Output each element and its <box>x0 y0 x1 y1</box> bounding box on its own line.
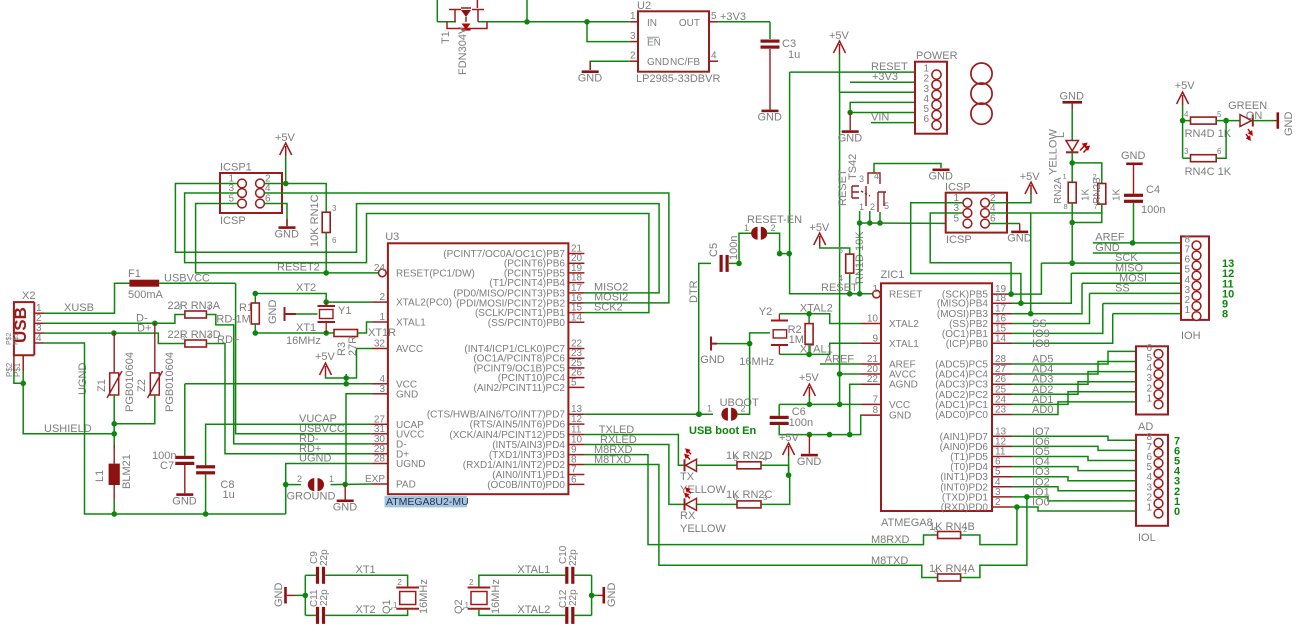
svg-text:GND: GND <box>700 354 725 366</box>
svg-text:XTAL1: XTAL1 <box>889 339 919 350</box>
C7 gnd lead <box>184 465 186 493</box>
U3 pin 10 (INT5/AIN3)PD4 <box>568 444 584 446</box>
varistor Z1 <box>113 333 115 373</box>
svg-text:AD0: AD0 <box>1032 404 1053 416</box>
junction dot <box>877 220 883 226</box>
resistor RN1D <box>846 254 854 273</box>
svg-text:Q1: Q1 <box>381 599 393 614</box>
svg-text:IOL: IOL <box>1138 532 1156 544</box>
wire C9/C11 left vertical <box>304 575 306 615</box>
ICSP1 pin 2 <box>256 179 265 188</box>
wire IO3 <box>1012 477 1136 481</box>
op-amp U2 box <box>638 11 709 71</box>
junction dot <box>806 352 812 358</box>
ICSP pin 1 <box>963 198 972 207</box>
wire XT2 <box>255 294 372 303</box>
svg-text:Q2: Q2 <box>453 599 465 614</box>
svg-text:XTAL2: XTAL2 <box>517 604 550 616</box>
junction dot <box>343 381 349 387</box>
led TX yellow <box>684 459 686 471</box>
label ATMEGA8U2-MU highlighted <box>385 496 468 508</box>
connector ICSP box <box>946 193 1007 233</box>
svg-text:EN: EN <box>647 38 661 49</box>
svg-text:GND: GND <box>275 228 300 240</box>
svg-text:+5V: +5V <box>799 372 820 384</box>
resistor RN1C <box>322 212 330 232</box>
svg-text:PGB010604: PGB010604 <box>124 352 136 412</box>
wire AD0 <box>1012 402 1136 415</box>
svg-text:GND: GND <box>172 495 197 507</box>
ZIC1 pin 13 (AIN1)PD7 <box>992 435 1012 437</box>
svg-text:XTAL1: XTAL1 <box>517 564 550 576</box>
svg-text:GND: GND <box>838 132 863 144</box>
svg-text:5: 5 <box>953 214 959 225</box>
svg-text:1: 1 <box>630 11 636 22</box>
svg-text:ICSP: ICSP <box>945 182 971 194</box>
junction dot <box>1069 160 1075 166</box>
wire IO0 <box>1012 507 1136 511</box>
wire C4 to AREF <box>1133 203 1135 243</box>
wire RN4C loop to LED node <box>1216 121 1226 159</box>
wire ICSP pin4 to RN2B <box>1031 205 1102 214</box>
junction dot <box>1028 311 1034 317</box>
U3 pin 15 (SCLK/PCINT1)PB1 <box>568 312 584 314</box>
wire TS42 top to GND <box>874 164 941 174</box>
wire AREF stub <box>820 363 861 365</box>
ZIC1 pin 28 (ADC5)PC5 <box>992 363 1012 365</box>
svg-text:2: 2 <box>963 525 967 534</box>
svg-text:5: 5 <box>839 246 844 255</box>
svg-text:5: 5 <box>711 11 717 22</box>
svg-text:C5: C5 <box>708 243 720 257</box>
svg-text:GND: GND <box>797 456 822 468</box>
ground C6 rail <box>808 435 810 454</box>
junction dot <box>807 402 813 408</box>
ic ZIC1 box <box>881 283 992 511</box>
svg-text:1: 1 <box>465 601 470 610</box>
svg-text:GND: GND <box>578 72 603 84</box>
wire XT2 to Q1 <box>325 610 407 616</box>
svg-text:14: 14 <box>571 312 583 323</box>
svg-text:1: 1 <box>707 404 712 414</box>
capacitor C4 <box>1124 194 1143 197</box>
svg-text:0: 0 <box>1174 506 1180 518</box>
svg-text:6: 6 <box>1217 147 1222 156</box>
U3 pin 1 XTAL1 <box>372 321 388 323</box>
svg-text:XT1: XT1 <box>356 564 376 576</box>
U3 pin 27 UCAP <box>372 423 388 425</box>
svg-text:100n: 100n <box>1141 204 1165 216</box>
svg-text:F1: F1 <box>128 268 141 280</box>
U3 pin 24 RESET(PC1/DW) <box>379 269 387 277</box>
wire UGND from USB pin4 <box>44 343 286 514</box>
svg-text:C4: C4 <box>1146 184 1160 196</box>
svg-text:18: 18 <box>995 293 1007 304</box>
svg-text:ICSP: ICSP <box>220 215 246 227</box>
junction dot <box>1024 494 1030 500</box>
wire IO1 <box>1012 497 1136 501</box>
svg-text:RX: RX <box>680 510 696 522</box>
junction dot <box>747 341 753 347</box>
svg-text:2: 2 <box>995 497 1001 508</box>
svg-text:FDN304V: FDN304V <box>457 26 469 75</box>
svg-text:GND: GND <box>1121 150 1146 162</box>
svg-text:UGND: UGND <box>396 459 425 470</box>
wire RESET-EN pin2 to RESET <box>766 233 789 253</box>
svg-text:VCC: VCC <box>889 400 910 411</box>
U3 pin 8 (RXD1/AIN1/INT2)PD2 <box>568 464 584 466</box>
wire MOSI line to IOH pin4 <box>1082 282 1181 284</box>
wire ICSP1 pin1 MISO route <box>175 184 659 293</box>
ZIC1 pin 25 (ADC2)PC2 <box>992 393 1012 395</box>
svg-text:+5V: +5V <box>315 351 336 363</box>
wire AREF line to IOH pin8 <box>1093 242 1181 244</box>
svg-text:LP2985-33DBVR: LP2985-33DBVR <box>636 73 720 85</box>
svg-text:1: 1 <box>859 202 864 212</box>
wire +5V down <box>1182 105 1184 158</box>
svg-text:XT1R: XT1R <box>368 327 396 339</box>
svg-text:+3V3: +3V3 <box>720 11 746 23</box>
junction dot <box>152 321 158 327</box>
wire ICSP pin3 SCK route <box>930 213 1011 294</box>
junction dot <box>777 251 783 257</box>
svg-text:2: 2 <box>1093 172 1097 181</box>
ground ICSP1 <box>264 204 287 227</box>
svg-text:GND: GND <box>1007 233 1031 245</box>
wire TX to RN2D <box>697 464 738 466</box>
svg-text:(SS/PCINT0)PB0: (SS/PCINT0)PB0 <box>488 318 566 329</box>
svg-text:XTAL1: XTAL1 <box>396 318 426 329</box>
wire RN2C to +5V node <box>761 475 790 504</box>
svg-text:PAD: PAD <box>396 480 416 491</box>
capacitor C10 <box>565 567 568 584</box>
jumper GROUND <box>286 484 301 486</box>
wire POWER pin4-pin5 gnd tie <box>850 102 915 112</box>
svg-text:28: 28 <box>374 454 386 465</box>
resistor RN2B <box>1098 184 1106 205</box>
wire M8TXD <box>584 465 937 578</box>
U3 pin 19 (PCINT5)PB5 <box>568 272 584 274</box>
U3 pin 22 (INT4/ICP1/CLK0)PC7 <box>568 348 584 350</box>
svg-text:ATMEGA8U2-MU: ATMEGA8U2-MU <box>386 496 469 508</box>
wire +5V down and to POWER pin3 and long rail down <box>839 54 841 92</box>
svg-text:4: 4 <box>874 171 879 181</box>
svg-text:XT2: XT2 <box>296 282 316 294</box>
varistor Z2 <box>154 323 156 373</box>
U3 pin 26 (PCINT10)PC4 <box>568 377 584 379</box>
wire XUSB <box>44 283 129 313</box>
wire M8RXD <box>584 455 937 545</box>
svg-text:ATMEGA8: ATMEGA8 <box>881 517 933 529</box>
junction dot <box>857 220 863 226</box>
svg-text:8: 8 <box>1064 202 1068 211</box>
ZIC1 pin 10 XTAL2 <box>861 323 881 325</box>
wire XTAL1 ZIC1 <box>779 343 861 354</box>
junction dot <box>253 291 259 297</box>
svg-text:3: 3 <box>763 493 767 502</box>
ground C7 <box>176 493 193 496</box>
svg-text:(RXD)PD0: (RXD)PD0 <box>941 503 989 514</box>
capacitor C6 <box>770 416 789 419</box>
jumper UBOOT <box>721 408 727 421</box>
svg-text:14: 14 <box>995 333 1007 344</box>
svg-text:1u: 1u <box>223 489 235 501</box>
wire TXLED <box>584 435 684 466</box>
wire RD- <box>206 315 372 444</box>
U3 pin 29 D+ <box>372 453 388 455</box>
ZIC1 pin 14 (ICP)PB0 <box>992 342 1012 344</box>
USB pin 2 <box>34 322 44 324</box>
capacitor C8 <box>196 465 215 468</box>
svg-text:UGND: UGND <box>299 453 331 465</box>
wire RESET to POWER pin1 <box>790 71 915 73</box>
U3 pin 17 (PD0/MISO/PCINT3)PB3 <box>568 292 584 294</box>
ZIC1 pin 18 (MISO)PB4 <box>992 302 1012 304</box>
svg-text:ICSP: ICSP <box>946 234 972 246</box>
wire reset row down to RESET line <box>859 223 861 294</box>
svg-text:ZIC1: ZIC1 <box>881 269 905 281</box>
wire IO2 <box>1012 487 1136 491</box>
ground ICSP <box>1011 231 1028 234</box>
svg-text:8: 8 <box>872 405 878 416</box>
svg-text:1: 1 <box>1063 172 1067 181</box>
ZIC1 pin 21 AREF <box>861 363 881 365</box>
inductor L1 BLM21 <box>113 445 115 500</box>
ICSP1 pin 1 <box>238 179 247 188</box>
wire ICSP1 pin4 MOSI route <box>264 193 669 303</box>
ICSP pin 4 <box>981 209 990 218</box>
wire AVCC to +5V rail <box>840 373 861 375</box>
U3 pin 11 (XCK/AIN4/PCINT12)PD5 <box>568 434 584 436</box>
wire GND line to IOH pin7 <box>1093 252 1181 254</box>
junction dot <box>827 432 833 438</box>
wire +5V to RN1D <box>820 246 850 254</box>
svg-text:2: 2 <box>469 578 474 587</box>
wire +5V to AVCC and VCC <box>326 376 347 378</box>
mounting hole <box>971 83 992 104</box>
resistor RN4C <box>1183 157 1191 159</box>
ZIC1 pin 4 (INT0)PD2 <box>992 486 1012 488</box>
wire RD+ <box>206 344 372 454</box>
svg-text:+5V: +5V <box>1020 171 1041 183</box>
led GREEN ON <box>1240 115 1252 127</box>
junction dot <box>807 432 813 438</box>
wire LED to RN2A RN2B <box>1071 152 1073 182</box>
wire SS line to IOH pin3 <box>1090 292 1182 294</box>
resistor RN4A <box>938 574 961 581</box>
ICSP1 pin 6 <box>256 199 265 208</box>
junction dot <box>857 291 863 297</box>
svg-text:4: 4 <box>207 332 211 341</box>
ground Y2 <box>717 343 729 345</box>
svg-text:ICSP1: ICSP1 <box>220 162 252 174</box>
svg-text:U3: U3 <box>385 231 399 243</box>
ZIC1 pin 7 VCC <box>861 403 881 405</box>
svg-text:NC/FB: NC/FB <box>670 57 700 68</box>
svg-text:RN4C 1K: RN4C 1K <box>1185 166 1232 178</box>
ZIC1 pin 22 AGND <box>861 383 881 385</box>
svg-text:2: 2 <box>379 292 385 303</box>
svg-text:X2: X2 <box>22 290 35 302</box>
wire LED to GND <box>1253 120 1274 122</box>
svg-text:4: 4 <box>36 333 42 344</box>
U3 pin 20 (PCINT6)PB6 <box>568 262 584 264</box>
wire VUCAP to C8 <box>206 424 372 465</box>
svg-text:RESET-EN: RESET-EN <box>747 214 802 226</box>
svg-text:BLM21: BLM21 <box>121 454 133 489</box>
U3 pin 21 (PCINT7/OC0A/OC1C)PB7 <box>568 253 584 255</box>
ground POWER <box>849 113 851 131</box>
svg-text:(OC0B/INT0)PD0: (OC0B/INT0)PD0 <box>487 480 565 491</box>
svg-text:YELLOW: YELLOW <box>680 523 726 535</box>
ZIC1 pin 5 (INT1)PD3 <box>992 476 1012 478</box>
USB pin 3 <box>34 332 44 334</box>
svg-text:XTAL2: XTAL2 <box>800 303 833 315</box>
wire +5V to VCC rail <box>808 397 810 404</box>
ground L LED <box>1063 101 1083 104</box>
U2 pin 4 NC/FB <box>709 60 718 62</box>
svg-text:M8TXD: M8TXD <box>871 555 908 567</box>
wire U3 GND pin3 down <box>346 394 372 485</box>
wire AD3 <box>1012 372 1136 385</box>
svg-text:2: 2 <box>397 578 402 587</box>
wire +5V loop vertical <box>526 0 528 22</box>
junction dot <box>111 330 117 336</box>
junction dot <box>1130 240 1136 246</box>
svg-text:AGND: AGND <box>889 380 918 391</box>
junction dot <box>111 511 117 517</box>
wire ICSP pin4 MOSI route <box>989 213 1030 314</box>
wire +5V down <box>788 456 790 475</box>
svg-text:RN4D 1K: RN4D 1K <box>1185 128 1232 140</box>
junction dot <box>847 110 853 116</box>
svg-text:RN2A: RN2A <box>1053 177 1064 204</box>
svg-text:16MHz: 16MHz <box>490 579 502 614</box>
svg-text:+5V: +5V <box>779 432 800 444</box>
junction dot <box>20 381 26 387</box>
junction dot <box>1069 260 1075 266</box>
svg-text:TX: TX <box>680 471 695 483</box>
junction dot <box>1069 220 1075 226</box>
wire ICSP pin6 to GND <box>989 223 1019 225</box>
wire SCK line to IOH pin6 <box>1041 262 1181 264</box>
svg-text:1: 1 <box>379 312 385 323</box>
svg-text:(MISO)PB4: (MISO)PB4 <box>937 299 989 310</box>
wire RN4A to PD1 <box>961 497 1027 578</box>
transistor T1 FDN304V <box>447 0 487 29</box>
svg-text:6: 6 <box>332 236 337 245</box>
wire VCC rail <box>779 403 861 405</box>
crystal Q2 <box>468 588 491 609</box>
wire reset row to ICSP pin5 <box>860 222 968 225</box>
svg-text:AVCC: AVCC <box>396 344 423 355</box>
USB shield pins <box>14 355 23 371</box>
wire XT1 to Q1 <box>325 575 407 587</box>
capacitor C5 <box>720 255 723 272</box>
svg-text:SCK2: SCK2 <box>594 301 623 313</box>
svg-text:100n: 100n <box>789 417 813 429</box>
svg-text:XT2: XT2 <box>356 604 376 616</box>
wire VIN loop left vertical <box>436 0 438 22</box>
svg-text:4: 4 <box>711 51 717 62</box>
ground XT crystal right <box>592 594 598 596</box>
svg-text:(AIN2/PCINT11)PC2: (AIN2/PCINT11)PC2 <box>473 383 565 394</box>
junction dot <box>696 411 702 417</box>
svg-text:1K: 1K <box>1112 188 1123 201</box>
wire L1 connection <box>113 434 115 448</box>
svg-text:22p: 22p <box>568 589 579 606</box>
ICSP pin 6 <box>981 219 990 228</box>
wire MISO line to IOH pin5 <box>1071 272 1181 274</box>
wire ICSP1 pin5 RESET2 route <box>196 204 379 273</box>
ground U2 <box>589 61 591 70</box>
junction dot <box>303 593 309 599</box>
svg-text:T1: T1 <box>440 31 452 44</box>
ZIC1 pin 6 (T0)PD4 <box>992 466 1012 468</box>
svg-text:Z2: Z2 <box>136 379 148 392</box>
junction dot <box>736 261 742 267</box>
svg-text:RESET: RESET <box>821 282 858 294</box>
junction dot <box>111 421 117 427</box>
ZIC1 pin 20 AVCC <box>861 373 881 375</box>
ground GREEN LED <box>1274 120 1277 122</box>
wire UGND line <box>286 464 372 515</box>
U2 pin 5 OUT <box>709 21 718 23</box>
wire C10/C12 right vertical <box>591 575 593 615</box>
resistor RN3A <box>185 311 207 318</box>
junction dot <box>847 432 853 438</box>
svg-text:6: 6 <box>934 567 938 576</box>
U3 pin 25 (PCINT9/OC1B)PC5 <box>568 367 584 369</box>
wire RESET-EN loop <box>739 233 752 263</box>
wire D- <box>44 315 185 324</box>
svg-text:3: 3 <box>1184 147 1189 156</box>
resistor RN2D <box>737 462 761 469</box>
ZIC1 pin 15 (OC1)PB1 <box>992 332 1012 334</box>
capacitor C11 <box>305 614 316 616</box>
wire L1 bottom to rail <box>113 500 115 514</box>
svg-text:UBOOT: UBOOT <box>720 397 759 409</box>
U3 pin 32 AVCC <box>372 348 388 350</box>
junction dot <box>323 270 329 276</box>
svg-text:D+: D+ <box>137 323 151 335</box>
ZIC1 pin 24 (ADC1)PC1 <box>992 403 1012 405</box>
svg-text:2: 2 <box>630 51 636 62</box>
wire C6 top lead <box>778 404 780 415</box>
U2 pin 2 GND <box>630 60 638 62</box>
svg-text:GND: GND <box>333 502 358 514</box>
wire USHIELD vertical <box>23 383 114 434</box>
wire RN2A to SCK line <box>1071 203 1073 263</box>
wire RN1D to RESET <box>849 273 851 294</box>
U3 pin 30 D- <box>372 443 388 445</box>
ZIC1 pin 2 (RXD)PD0 <box>992 506 1012 508</box>
wire UBOOT pin2 up to Y2 gnd node <box>737 344 750 415</box>
wire IO7 <box>1012 436 1136 440</box>
wire XTAL2 to C12 <box>479 610 565 616</box>
crystal Y1 <box>325 302 327 306</box>
resistor R2 1M <box>808 314 810 324</box>
svg-text:1: 1 <box>329 474 334 484</box>
svg-text:1: 1 <box>207 303 211 312</box>
wire Z2 bottom <box>114 395 155 424</box>
svg-text:PGB010604: PGB010604 <box>164 352 176 412</box>
wire C8 to rail <box>205 475 207 515</box>
U3 pin 6 (OC0B/INT0)PD0 <box>568 483 584 485</box>
svg-text:3: 3 <box>630 31 636 42</box>
junction dot <box>283 482 289 488</box>
U3 pin 23 (OC1A/PCINT8)PC6 <box>568 357 584 359</box>
